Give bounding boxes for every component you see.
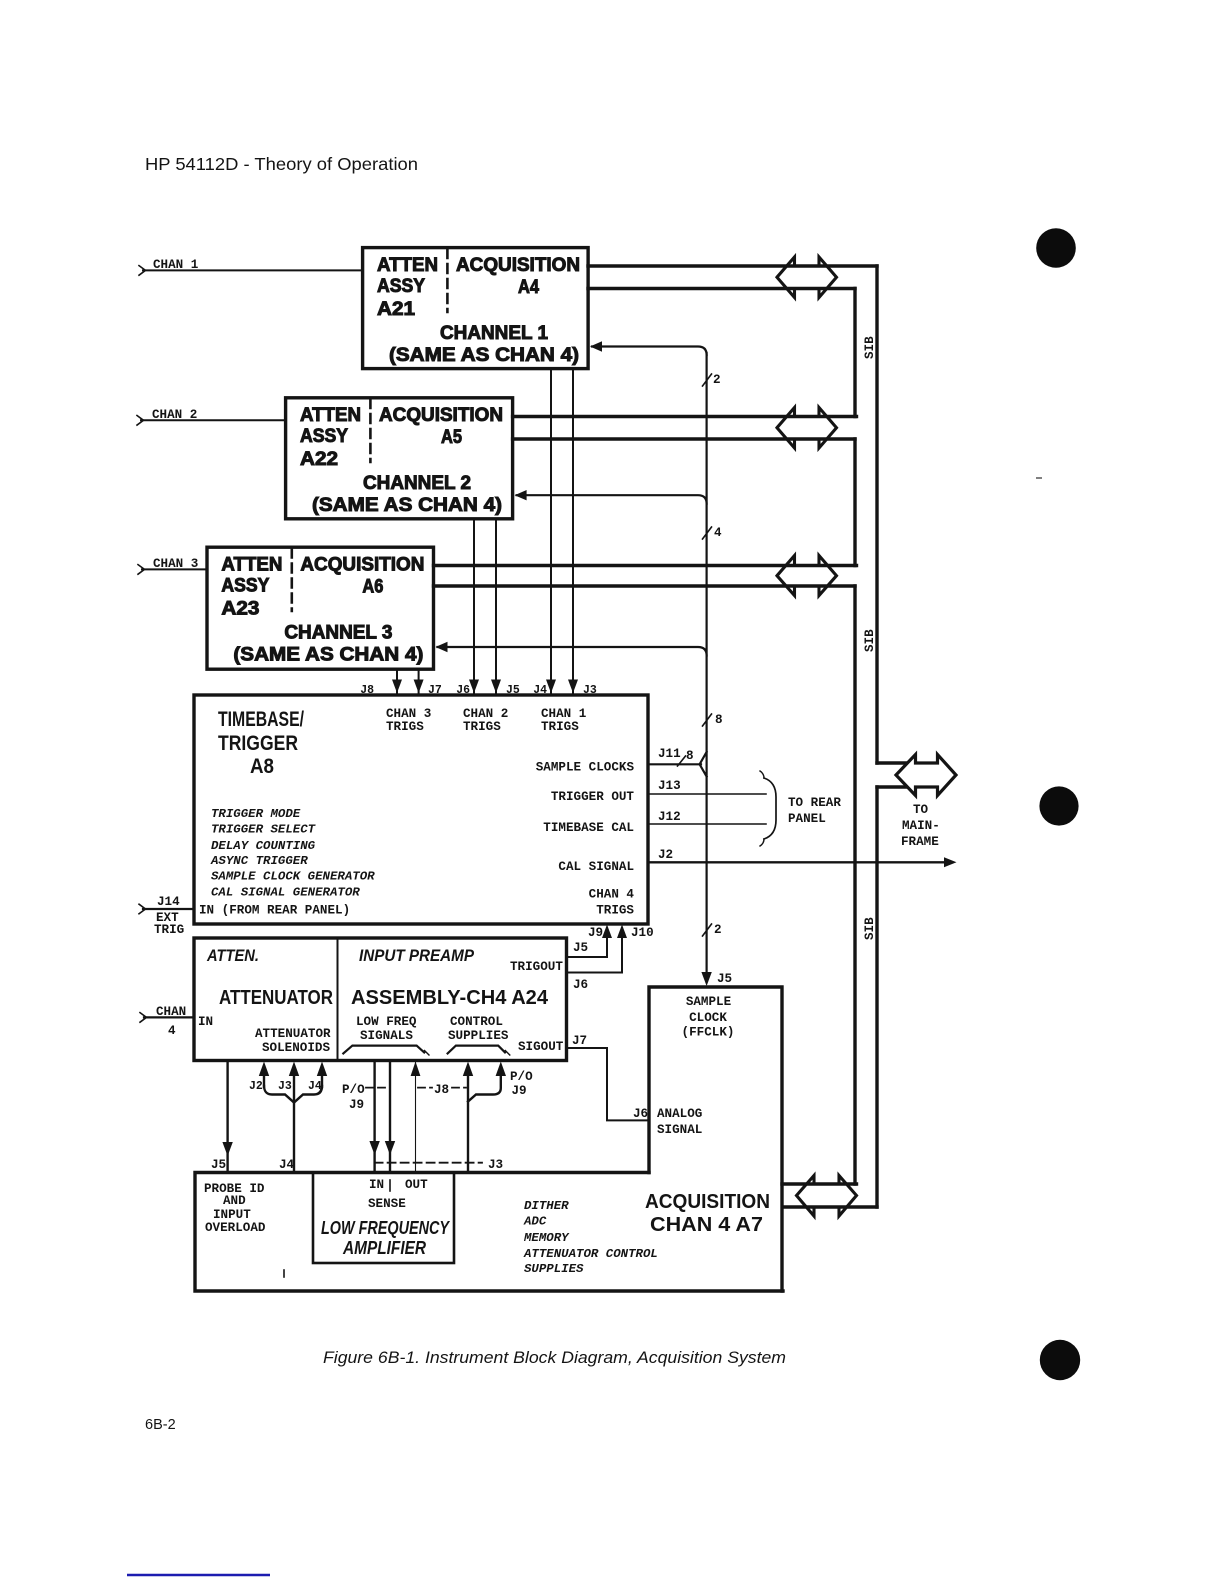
svg-text:J2: J2 — [658, 848, 673, 862]
svg-text:J14: J14 — [157, 895, 180, 909]
svg-text:SENSE: SENSE — [368, 1197, 406, 1211]
svg-text:SIGNALS: SIGNALS — [360, 1029, 413, 1043]
svg-text:J5: J5 — [573, 941, 588, 955]
svg-text:AND: AND — [223, 1194, 246, 1208]
wire solenoid funnel merge — [264, 1086, 294, 1103]
wire A7 bus bottom line — [783, 1205, 877, 1208]
svg-text:J5: J5 — [211, 1158, 226, 1172]
svg-text:ATTENUATOR CONTROL: ATTENUATOR CONTROL — [523, 1247, 658, 1261]
wire CHAN 2 input — [141, 419, 286, 421]
wire CH2 trig drop J5 — [495, 519, 497, 693]
svg-text:LOW FREQUENCY: LOW FREQUENCY — [321, 1218, 451, 1238]
wire J2 solenoid arrow — [263, 1076, 265, 1087]
block TIMEBASE/TRIGGER A8 — [194, 695, 648, 924]
svg-text:SIGOUT: SIGOUT — [518, 1040, 564, 1054]
svg-text:CHANNEL 3: CHANNEL 3 — [284, 623, 392, 644]
svg-text:J9: J9 — [588, 926, 603, 940]
node CHAN 4 label — [156, 1005, 186, 1038]
svg-text:J8: J8 — [434, 1083, 449, 1097]
svg-text:ACQUISITION: ACQUISITION — [456, 255, 580, 276]
svg-text:SAMPLE: SAMPLE — [686, 995, 732, 1009]
svg-text:P/O: P/O — [342, 1083, 365, 1097]
wire J5-J9 trigout line to timebase — [567, 939, 608, 957]
binder hole dot top — [1036, 228, 1076, 268]
wire J5 probe id line — [226, 1061, 228, 1173]
wire CH3 bus second line — [434, 584, 856, 587]
svg-text:TRIGS: TRIGS — [541, 720, 579, 734]
svg-text:J11: J11 — [658, 747, 681, 761]
svg-text:J13: J13 — [658, 779, 681, 793]
svg-text:IN: IN — [369, 1178, 384, 1192]
wire SIB outer rail lower segment — [875, 787, 878, 1207]
svg-text:A4: A4 — [518, 277, 539, 298]
bus width marker 8 on J11 — [678, 756, 686, 766]
svg-text:SOLENOIDS: SOLENOIDS — [262, 1041, 330, 1055]
svg-text:DELAY COUNTING: DELAY COUNTING — [211, 839, 316, 853]
svg-text:TO: TO — [913, 803, 929, 817]
svg-text:SIB: SIB — [863, 629, 877, 652]
svg-text:IN: IN — [198, 1015, 213, 1029]
svg-text:ATTEN: ATTEN — [377, 255, 438, 276]
svg-text:CHAN: CHAN — [156, 1005, 186, 1019]
svg-text:6B-2: 6B-2 — [145, 1417, 176, 1433]
svg-text:CONTROL: CONTROL — [450, 1015, 503, 1029]
wire SIB inner rail segment 3 (CH3 bus to A7 bus) — [853, 586, 856, 1184]
wire SIB inner rail segment 1 (CH1 to CH2 bus) — [853, 289, 856, 417]
svg-text:CHANNEL 2: CHANNEL 2 — [363, 473, 471, 494]
wire CH2 bus second line — [513, 437, 855, 440]
svg-text:TIMEBASE/: TIMEBASE/ — [218, 708, 304, 731]
svg-text:HP 54112D - Theory of Operatio: HP 54112D - Theory of Operation — [145, 154, 418, 174]
wire CHAN 1 input — [143, 269, 363, 271]
wire control supplies trunk — [467, 1076, 469, 1173]
svg-text:CAL SIGNAL GENERATOR: CAL SIGNAL GENERATOR — [211, 886, 360, 900]
svg-text:ANALOG: ANALOG — [657, 1107, 702, 1121]
wire CH2 trigs feed with arrow into CHANNEL 2 — [517, 495, 707, 504]
svg-text:TRIGGER SELECT: TRIGGER SELECT — [211, 823, 317, 837]
svg-text:SIB: SIB — [863, 917, 877, 940]
svg-text:TIMEBASE CAL: TIMEBASE CAL — [543, 821, 634, 835]
wire CH1 trig drop J4 — [550, 369, 552, 694]
svg-text:ACQUISITION: ACQUISITION — [300, 555, 424, 576]
wire J2 CAL SIGNAL output to mainframe — [648, 861, 948, 863]
wire J11 SAMPLE CLOCKS output — [648, 763, 701, 765]
svg-text:PANEL: PANEL — [788, 812, 826, 826]
bus double-arrow symbol CH1-SIB — [777, 257, 837, 298]
svg-text:A6: A6 — [362, 577, 383, 598]
svg-text:CAL SIGNAL: CAL SIGNAL — [558, 860, 634, 874]
wire CH3 trig drop J8 — [396, 669, 398, 693]
svg-text:(SAME AS CHAN 4): (SAME AS CHAN 4) — [389, 345, 579, 366]
svg-text:CHAN 4 A7: CHAN 4 A7 — [650, 1214, 763, 1236]
wire CH2 bus top line — [513, 415, 857, 418]
svg-text:J9: J9 — [349, 1098, 364, 1112]
svg-text:OVERLOAD: OVERLOAD — [205, 1221, 266, 1235]
svg-text:TO REAR: TO REAR — [788, 796, 841, 810]
svg-text:J3: J3 — [278, 1080, 292, 1093]
wire A7 bus top line — [782, 1182, 857, 1185]
svg-text:J6: J6 — [633, 1107, 648, 1121]
svg-text:IN (FROM REAR PANEL): IN (FROM REAR PANEL) — [199, 904, 350, 918]
block CHANNEL 1 (ATTEN ASSY A21 / ACQUISITION A4) — [363, 248, 588, 369]
svg-text:TRIGGER MODE: TRIGGER MODE — [211, 807, 301, 821]
wire low freq OUT sense line — [389, 1061, 391, 1173]
wire J13 TRIGGER OUT output — [648, 793, 766, 795]
wire SIB outer rail upper segment — [875, 266, 878, 763]
svg-text:ASSY: ASSY — [300, 426, 348, 447]
wire dashed J3 tie — [375, 1162, 482, 1164]
svg-text:SIB: SIB — [863, 336, 877, 359]
binder hole dot middle — [1039, 786, 1078, 825]
svg-text:CHANNEL 1: CHANNEL 1 — [440, 323, 548, 344]
wire J12 TIMEBASE CAL output — [648, 823, 766, 825]
bus double-arrow symbol CH3-SIB — [777, 556, 837, 596]
block SAMPLE CLOCK (FFCLK) — [649, 987, 782, 1291]
svg-text:CHAN 4: CHAN 4 — [589, 888, 635, 902]
bus width marker 8 — [703, 714, 712, 726]
block LOW FREQUENCY AMPLIFIER — [313, 1173, 454, 1264]
wire J8 thin line — [415, 1062, 417, 1173]
svg-text:CLOCK: CLOCK — [689, 1011, 727, 1025]
svg-text:TRIGOUT: TRIGOUT — [510, 960, 563, 974]
svg-text:CHAN 3: CHAN 3 — [386, 707, 431, 721]
svg-text:MEMORY: MEMORY — [523, 1231, 570, 1245]
svg-text:P/O: P/O — [510, 1070, 533, 1084]
svg-text:OUT: OUT — [405, 1178, 428, 1192]
svg-text:ATTEN.: ATTEN. — [206, 946, 259, 965]
wire CH1 bus second line to inner rail — [588, 287, 855, 290]
wire CH1 trigs feed with arrow into CHANNEL 1 — [592, 347, 707, 356]
svg-text:4: 4 — [714, 526, 722, 540]
brace TO REAR PANEL — [764, 778, 776, 839]
wire dashed J8 tie — [418, 1087, 432, 1089]
svg-text:CHAN 2: CHAN 2 — [463, 707, 508, 721]
binder hole dot bottom — [1040, 1340, 1080, 1380]
bus width marker 2 (chan 1 trigs) — [703, 374, 712, 386]
bus width marker 2 (sample clock) — [703, 924, 712, 936]
wire P/O J9 supply arrow and elbow — [496, 1062, 506, 1077]
svg-text:MAIN-: MAIN- — [902, 819, 940, 833]
svg-text:ACQUISITION: ACQUISITION — [379, 405, 503, 426]
block ATTENUATOR ASSEMBLY-CH4 A24 — [194, 938, 567, 1061]
wire CH3 trig drop J7 — [418, 669, 420, 693]
svg-text:ATTEN: ATTEN — [221, 555, 282, 576]
wire J6-J10 trigout line to timebase — [567, 939, 623, 973]
wire CH3 trigs feed with arrow into CHANNEL 3 — [438, 647, 707, 656]
wire J14 EXT TRIG input — [143, 908, 194, 910]
svg-text:(SAME AS CHAN 4): (SAME AS CHAN 4) — [233, 645, 423, 666]
svg-text:ADC: ADC — [523, 1215, 547, 1229]
svg-text:SAMPLE CLOCK GENERATOR: SAMPLE CLOCK GENERATOR — [211, 870, 375, 884]
svg-text:J10: J10 — [631, 926, 654, 940]
wire low freq IN line — [373, 1061, 375, 1173]
svg-text:8: 8 — [686, 749, 694, 763]
svg-text:SUPPLIES: SUPPLIES — [448, 1029, 509, 1043]
group bracket under LOW FREQ SIGNALS — [343, 1046, 424, 1054]
svg-text:2: 2 — [713, 373, 721, 387]
node TO MAINFRAME label — [901, 803, 940, 849]
wire dashed P/O J9 tie — [366, 1087, 388, 1089]
svg-text:8: 8 — [715, 713, 723, 727]
svg-text:SAMPLE CLOCKS: SAMPLE CLOCKS — [536, 761, 635, 775]
wire CHAN 4 input — [144, 1016, 194, 1018]
svg-text:SUPPLIES: SUPPLIES — [524, 1262, 584, 1276]
svg-text:ATTENUATOR: ATTENUATOR — [255, 1027, 331, 1041]
svg-text:J4: J4 — [279, 1158, 295, 1172]
wire SIB inner rail segment 2 (CH2 to CH3 bus) — [853, 439, 856, 566]
wire mainframe bus stub bottom — [877, 785, 916, 788]
bus double-arrow symbol CH2-SIB — [777, 408, 837, 449]
svg-text:A23: A23 — [221, 599, 259, 620]
svg-text:TRIGS: TRIGS — [386, 720, 424, 734]
svg-text:J12: J12 — [658, 810, 681, 824]
group bracket under CONTROL SUPPLIES — [448, 1046, 505, 1054]
svg-text:AMPLIFIER: AMPLIFIER — [342, 1238, 426, 1258]
svg-text:INPUT PREAMP: INPUT PREAMP — [359, 946, 475, 965]
bus double-arrow symbol TO MAINFRAME — [896, 755, 956, 796]
svg-text:TRIGGER: TRIGGER — [218, 732, 298, 755]
wire J4 solenoid arrow — [321, 1076, 323, 1087]
svg-text:ASSY: ASSY — [221, 576, 269, 597]
svg-text:ATTEN: ATTEN — [300, 405, 361, 426]
svg-text:A22: A22 — [300, 449, 338, 470]
scan tick artifact — [283, 1270, 285, 1277]
svg-text:J6: J6 — [573, 978, 588, 992]
wire J7 SIGOUT to analog signal J6 — [567, 1048, 650, 1120]
bus width marker 4 — [703, 527, 712, 539]
svg-text:SIGNAL: SIGNAL — [657, 1123, 702, 1137]
block ACQUISITION CHAN 4 A7 — [195, 1173, 783, 1292]
svg-text:LOW FREQ: LOW FREQ — [356, 1015, 417, 1029]
svg-text:FRAME: FRAME — [901, 835, 939, 849]
svg-text:J3: J3 — [488, 1158, 503, 1172]
svg-text:ASSEMBLY-CH4 A24: ASSEMBLY-CH4 A24 — [351, 987, 549, 1009]
svg-text:CHAN 1: CHAN 1 — [541, 707, 587, 721]
wire CH1 bus top line to outer rail — [588, 264, 877, 267]
junction J11 merge kink on feed rail — [700, 752, 707, 777]
svg-text:DITHER: DITHER — [524, 1199, 569, 1213]
svg-text:INPUT: INPUT — [213, 1208, 251, 1222]
svg-text:TRIGS: TRIGS — [463, 720, 501, 734]
svg-text:ACQUISITION: ACQUISITION — [645, 1191, 770, 1213]
bus double-arrow symbol A7-SIB — [797, 1176, 857, 1217]
svg-text:J5: J5 — [717, 972, 732, 986]
wire mainframe bus stub top — [877, 761, 916, 764]
wire feed rail arrow into SAMPLE CLOCK J5 — [701, 972, 711, 986]
svg-text:J7: J7 — [572, 1034, 587, 1048]
svg-text:A21: A21 — [377, 299, 415, 320]
svg-text:Figure 6B-1. Instrument Block: Figure 6B-1. Instrument Block Diagram, A… — [323, 1348, 786, 1367]
svg-text:A5: A5 — [441, 427, 462, 448]
svg-text:TRIGGER OUT: TRIGGER OUT — [551, 790, 635, 804]
wire CH1 trig drop J3 — [572, 369, 574, 694]
blue scan artifact line bottom-left — [127, 1574, 270, 1577]
svg-text:J2: J2 — [249, 1080, 263, 1093]
svg-text:ASSY: ASSY — [377, 276, 425, 297]
node P/O J9 label (left) — [342, 1083, 365, 1112]
wire CHAN 3 input — [142, 568, 207, 570]
svg-text:TRIGS: TRIGS — [596, 904, 634, 918]
node P/O J9 label (right) — [510, 1070, 533, 1098]
svg-text:A8: A8 — [250, 755, 274, 778]
wire J4 solenoid trunk — [293, 1076, 295, 1173]
wire CH3 bus top line — [434, 564, 857, 567]
wire trigger feed vertical rail — [705, 353, 707, 977]
svg-text:J9: J9 — [512, 1084, 527, 1098]
svg-text:2: 2 — [714, 923, 722, 937]
svg-text:TRIG: TRIG — [154, 923, 184, 937]
svg-text:(FFCLK): (FFCLK) — [682, 1026, 735, 1040]
wire J3 solenoid arrow — [289, 1062, 299, 1077]
block CHANNEL 2 (ATTEN ASSY A22 / ACQUISITION A5) — [286, 398, 513, 519]
block CHANNEL 3 (ATTEN ASSY A23 / ACQUISITION A6) — [207, 547, 434, 669]
svg-text:ASYNC TRIGGER: ASYNC TRIGGER — [210, 854, 308, 868]
svg-text:J4: J4 — [308, 1080, 322, 1093]
wire CH2 trig drop J6 — [473, 519, 475, 693]
node TO REAR PANEL label — [788, 796, 841, 826]
svg-text:(SAME AS CHAN 4): (SAME AS CHAN 4) — [312, 495, 502, 516]
svg-text:ATTENUATOR: ATTENUATOR — [219, 987, 333, 1009]
svg-text:4: 4 — [168, 1024, 176, 1038]
